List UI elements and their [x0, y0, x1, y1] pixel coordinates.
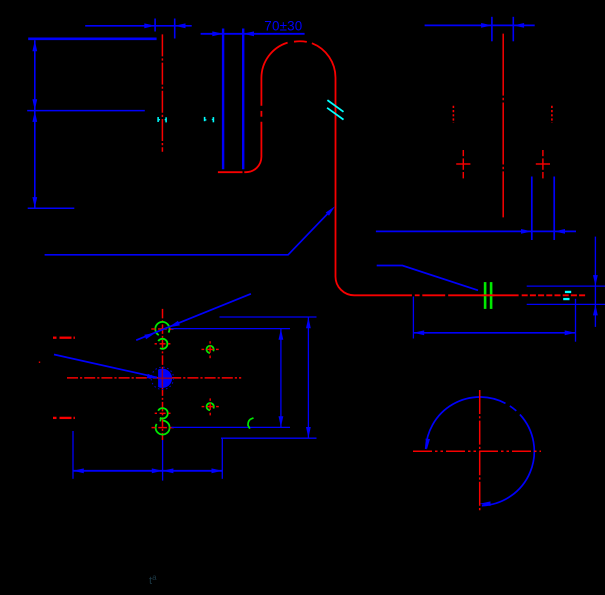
red hole cross left: [456, 163, 470, 165]
extension from tube end down: [575, 299, 577, 342]
center hole dotted circle: [151, 367, 173, 389]
green fitting bar 2: [490, 282, 493, 309]
red dotted stub right: [551, 106, 553, 123]
extension line y317: [220, 316, 317, 318]
leader to fitting symbol: [377, 266, 478, 291]
dimension line y231: [376, 230, 576, 232]
svg-text:70±30: 70±30: [264, 18, 302, 33]
dimension line D1 top-left: [85, 25, 192, 27]
red hole cross right: [536, 163, 550, 165]
center hole centerline overlay vertical: [161, 370, 163, 388]
red tube centerline path: [218, 171, 243, 173]
bottom extension x162: [162, 440, 164, 481]
hole C4: [157, 408, 167, 418]
hole C5: [156, 421, 170, 435]
outer vertical dimension flange height: [307, 317, 309, 438]
inner vertical dimension hole spacing: [280, 329, 282, 428]
center hole centerline overlay horizontal: [158, 377, 172, 379]
extension line y208: [28, 207, 75, 209]
red dotted stub left: [452, 106, 454, 123]
flange horizontal centerline: [67, 377, 241, 379]
center hole D filled half disc: [158, 369, 172, 388]
green hook symbol: [248, 418, 254, 429]
extension vertical x531: [531, 177, 533, 241]
hole CR2: [207, 403, 214, 410]
dimension line 70pm30: [201, 33, 305, 35]
extension line y438: [221, 437, 317, 439]
hole C5 cross: [152, 427, 156, 429]
hole C4 cross: [155, 412, 157, 414]
dimension line y332 tube length: [413, 332, 575, 334]
cyan break marks tube right leg: [327, 100, 343, 112]
red centerline left tube end: [161, 34, 163, 151]
bottom dimension line flange width: [73, 470, 222, 472]
hole C2: [158, 339, 168, 349]
dimension line top-right: [425, 24, 535, 26]
extension line tube OD top: [527, 285, 605, 287]
red tube centerline dashed right portion: [522, 294, 586, 296]
flange vertical centerline: [162, 309, 164, 440]
hole C1: [155, 322, 169, 336]
green fitting bar 1: [484, 282, 487, 309]
extension vertical x554: [553, 177, 555, 241]
extension line y328: [171, 328, 290, 330]
flange plate edge thick line: [28, 37, 156, 40]
hole C2 cross: [155, 343, 157, 345]
rotation view arc: [426, 397, 506, 449]
cyan break pair 2: [204, 117, 206, 121]
left edge hole centerline bottom: [53, 417, 57, 419]
cyan break marks horizontal run: [565, 291, 571, 293]
vertical dimension chain line: [34, 40, 36, 208]
extension line tube OD bottom: [527, 303, 605, 305]
hole C1 cross: [151, 328, 155, 330]
bottom extension x222: [221, 438, 223, 479]
red centerline right tube end: [502, 34, 504, 218]
tube end wall right: [242, 29, 244, 170]
bottom extension x73: [72, 431, 74, 479]
leader to center hole D: [54, 355, 157, 378]
extension line y110: [27, 110, 145, 112]
left edge hole centerline top: [53, 337, 57, 339]
hole C5 stub: [159, 419, 162, 422]
tube end wall left: [222, 29, 224, 170]
hole CR1: [207, 346, 214, 353]
extension x413: [412, 297, 414, 339]
leader to hole C1: [136, 294, 251, 340]
extension line y427: [172, 426, 291, 428]
red point: [39, 362, 40, 363]
rotation view vertical centerline: [479, 390, 481, 512]
red tube line over fitting bars: [482, 294, 495, 296]
leader to tube elbow: [45, 210, 332, 255]
right vertical dimension tube OD: [594, 237, 596, 327]
rotation view horizontal centerline: [413, 450, 541, 452]
cyan break pair 1: [157, 117, 159, 122]
